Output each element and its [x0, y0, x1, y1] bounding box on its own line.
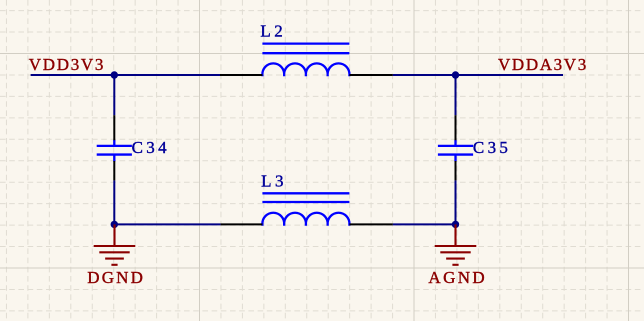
svg-text:VDDA3V3: VDDA3V3: [498, 55, 586, 74]
L3 pin 1: [221, 223, 263, 225]
wire left branch lower: [113, 180, 115, 224]
junction top-right: [452, 71, 459, 78]
inductor L3 coil and core bars: [262, 193, 349, 225]
C34 pin 2: [113, 161, 115, 180]
wire top rail right segment: [393, 74, 563, 76]
junction top-left: [111, 71, 118, 78]
wire top rail left segment: [31, 74, 220, 76]
svg-text:C34: C34: [132, 138, 168, 157]
wire bottom rail left segment: [114, 223, 220, 225]
inductor L2 coil and core bars: [262, 44, 349, 77]
wire right branch lower: [455, 180, 457, 224]
L3 pin 2: [349, 223, 392, 225]
L2 pin 1: [220, 74, 262, 76]
C34 pin 1: [113, 115, 115, 140]
L2 pin 2: [349, 74, 392, 76]
junction bottom-right: [452, 221, 459, 228]
ground symbol AGND: [435, 224, 477, 264]
wire bottom rail right segment: [393, 223, 456, 225]
capacitor C35: [438, 140, 473, 162]
wire right branch upper: [455, 75, 457, 115]
svg-text:VDD3V3: VDD3V3: [29, 55, 104, 74]
C35 pin 2: [455, 161, 457, 180]
C35 pin 1: [455, 115, 457, 140]
junction bottom-left: [111, 221, 118, 228]
capacitor C34: [97, 140, 132, 162]
ground symbol DGND: [94, 224, 136, 264]
wire left branch upper: [113, 75, 115, 115]
svg-text:C35: C35: [473, 138, 508, 157]
